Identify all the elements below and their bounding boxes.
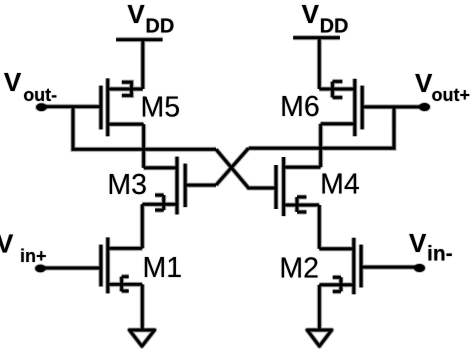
svg-text:V: V [4,67,22,97]
svg-text:DD: DD [145,16,174,38]
label VDD left [127,0,174,38]
label Vout- [4,67,57,105]
svg-text:DD: DD [320,16,349,38]
label Vin- [409,228,453,266]
svg-text:V: V [0,229,14,259]
svg-text:M2: M2 [279,252,319,284]
svg-text:M3: M3 [107,169,147,201]
svg-text:M4: M4 [320,168,360,200]
node Vin+ dot [34,264,47,274]
svg-text:V: V [127,0,145,29]
svg-text:V: V [409,228,427,258]
node Vin- dot [413,263,426,273]
svg-text:M6: M6 [280,91,320,123]
svg-text:M5: M5 [141,91,181,123]
label Vout+ [415,68,470,105]
svg-text:V: V [415,68,433,98]
schematic line art soft layers [41,38,425,347]
node Vout- dot [35,102,48,112]
label VDD right [302,0,349,38]
svg-text:in+: in+ [20,246,47,266]
svg-text:out+: out+ [432,85,471,105]
svg-text:V: V [302,0,320,29]
label Vin+ [0,229,47,267]
svg-text:in-: in- [427,243,453,266]
svg-text:out-: out- [23,85,57,105]
node Vout+ dot [418,102,431,112]
svg-text:M1: M1 [143,252,183,284]
